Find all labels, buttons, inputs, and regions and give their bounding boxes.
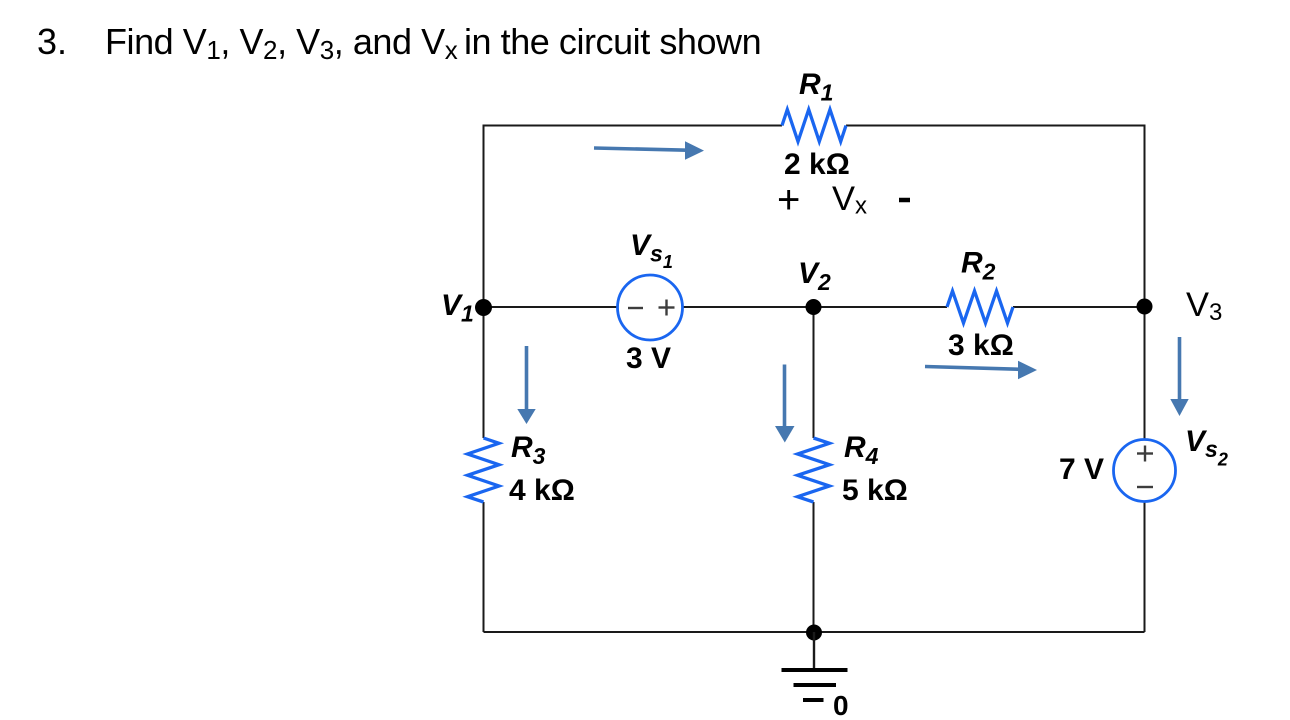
resistor R4 bbox=[798, 438, 830, 502]
voltage source Vs2 circle bbox=[1114, 440, 1176, 502]
resistor R2 bbox=[947, 291, 1013, 323]
svg-text:V3: V3 bbox=[1186, 286, 1222, 326]
resistor R3 bbox=[468, 438, 500, 502]
node V1 dot bbox=[475, 299, 492, 316]
svg-text:3 V: 3 V bbox=[626, 342, 671, 375]
wire middle (node V1 to Vs1) bbox=[484, 306, 619, 308]
Vs2 plus terminal bbox=[1137, 446, 1153, 462]
voltage source Vs1 circle bbox=[618, 275, 683, 340]
wire left vertical lower (R3 bottom to bottom-left corner) bbox=[483, 502, 485, 632]
Vs1 plus terminal bbox=[659, 300, 675, 316]
Vs2 minus terminal bbox=[1137, 486, 1153, 488]
current arrow right (into Vs2) bbox=[1170, 337, 1188, 416]
wire R4 branch upper (node V2 to R4 top) bbox=[813, 307, 815, 438]
wire left vertical upper (top-left corner to node V1) bbox=[483, 125, 485, 308]
svg-text:3.: 3. bbox=[37, 21, 67, 62]
Vs1 minus terminal bbox=[628, 307, 643, 309]
current arrow through R2 bbox=[925, 361, 1037, 379]
svg-text:7 V: 7 V bbox=[1059, 453, 1104, 486]
wire middle (Vs1 to node V2) bbox=[683, 306, 814, 308]
ground bbox=[782, 632, 848, 700]
svg-text:R2: R2 bbox=[961, 247, 996, 285]
svg-text:4 kΩ: 4 kΩ bbox=[509, 474, 575, 507]
wire middle (node V2 to R2) bbox=[814, 306, 948, 308]
svg-text:R1: R1 bbox=[799, 68, 833, 106]
svg-text:5 kΩ: 5 kΩ bbox=[842, 474, 908, 507]
svg-text:3 kΩ: 3 kΩ bbox=[948, 329, 1014, 362]
svg-text:+: + bbox=[777, 178, 800, 222]
wire top left segment bbox=[484, 125, 783, 127]
svg-text:R3: R3 bbox=[511, 431, 546, 469]
svg-text:Vx: Vx bbox=[832, 180, 867, 220]
wire middle (R2 to node V3) bbox=[1013, 306, 1145, 308]
svg-text:V1: V1 bbox=[441, 289, 474, 327]
wire right vertical lower (Vs2 bottom to bottom-right corner) bbox=[1144, 502, 1146, 633]
svg-text:Vs1: Vs1 bbox=[630, 229, 673, 272]
Vx minus sign bbox=[899, 198, 910, 203]
resistor R1 bbox=[782, 110, 846, 142]
current arrow top (through R1) bbox=[594, 141, 704, 159]
wire bottom bbox=[484, 631, 1145, 633]
svg-text:2 kΩ: 2 kΩ bbox=[784, 148, 850, 181]
ground junction node dot bbox=[806, 625, 822, 641]
wire R4 branch lower (R4 bottom to ground node) bbox=[813, 502, 815, 632]
svg-text:Find V1, V2, V3, and Vx in the: Find V1, V2, V3, and Vx in the circuit s… bbox=[105, 21, 761, 65]
wire right vertical (node V3 to Vs2 top) bbox=[1144, 307, 1146, 440]
svg-text:0: 0 bbox=[833, 690, 849, 720]
node V3 dot bbox=[1137, 299, 1153, 315]
current arrow middle (through R4) bbox=[775, 365, 795, 443]
node V2 dot bbox=[806, 299, 822, 315]
svg-text:R4: R4 bbox=[844, 431, 879, 469]
svg-text:Vs2: Vs2 bbox=[1185, 425, 1228, 470]
wire left vertical (node V1 to R3 top) bbox=[483, 307, 485, 438]
wire top right segment bbox=[846, 125, 1145, 127]
svg-text:V2: V2 bbox=[798, 257, 831, 295]
wire right vertical upper (top-right corner to node V3) bbox=[1144, 125, 1146, 308]
current arrow left (through R3) bbox=[517, 346, 535, 424]
